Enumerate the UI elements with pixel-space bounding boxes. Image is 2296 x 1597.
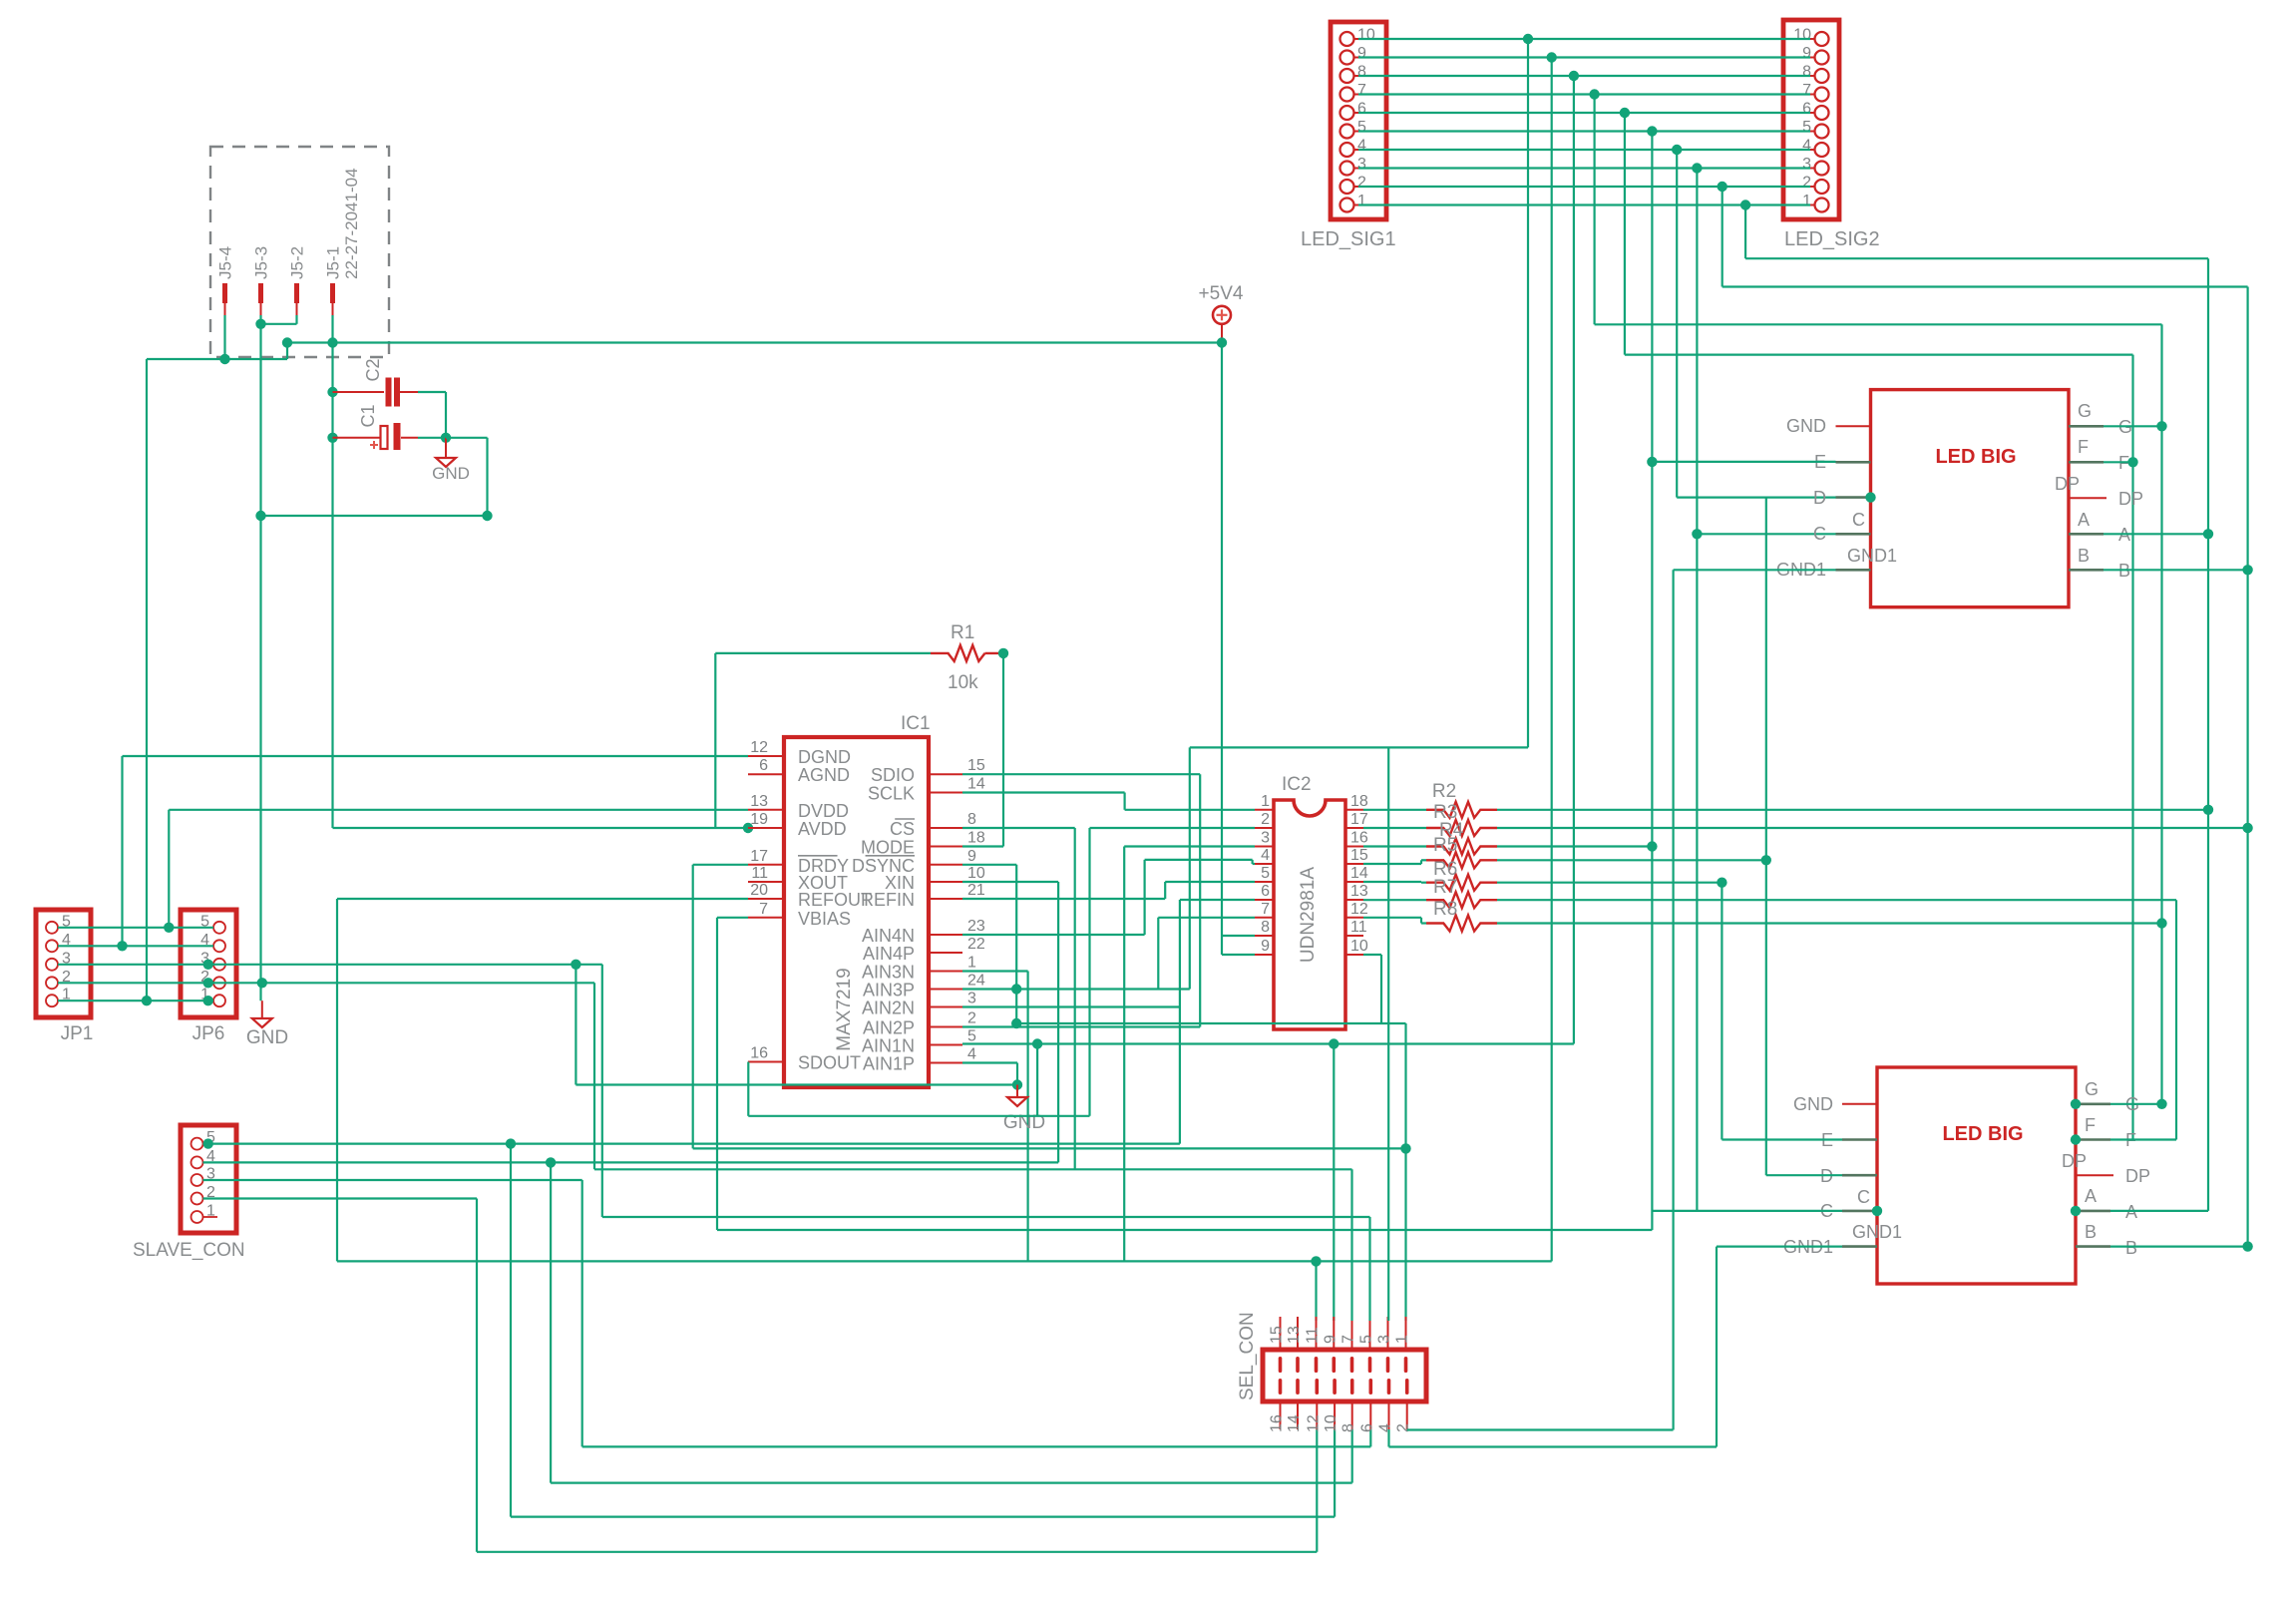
wire IC2.14 to R6: [1421, 882, 1426, 884]
connector JP1 body: [36, 910, 91, 1017]
wire SDOUT drop: [747, 1062, 749, 1116]
pin B stub (top LED BIG): [2069, 569, 2104, 572]
wire LED_SIG row pin 6: [1358, 112, 1810, 114]
svg-text:C1: C1: [358, 404, 378, 427]
pin number IC2.1: [1261, 793, 1270, 810]
resistor R5: [1426, 852, 1497, 868]
pin J5-2 pad: [294, 283, 299, 315]
wire AIN3P to IC2.7: [1158, 917, 1255, 919]
junction GND branch on pin3 row: [571, 960, 580, 970]
pin number 16: [750, 1045, 768, 1062]
pin number 18: [967, 830, 985, 847]
label F net (bottom LED BIG): [2125, 1130, 2136, 1150]
pin number JP6.5: [200, 913, 209, 930]
wire SIG4 drop: [1676, 150, 1678, 498]
wire R3 out to B net: [1497, 827, 2248, 829]
pin 23 AIN4N stub: [929, 934, 962, 936]
wire VBIAS row: [717, 917, 748, 919]
svg-text:AIN4N: AIN4N: [862, 926, 915, 946]
pin number IC2.15: [1350, 847, 1368, 864]
label C2: [363, 358, 383, 381]
label R7: [1433, 877, 1457, 898]
wire J5-1 vertical: [331, 315, 333, 343]
wire REFIN row: [962, 898, 1165, 900]
pin number 14: [967, 776, 985, 793]
wire SCLK row: [962, 791, 1125, 793]
svg-text:8: 8: [1357, 64, 1366, 81]
wire AIN2N row: [962, 1005, 1180, 1007]
wire +5V left drop to JP1.1: [146, 359, 148, 1000]
wire R5 out to D net: [1497, 859, 1766, 861]
svg-text:G: G: [2078, 401, 2092, 421]
ground GND near JP6: [252, 1000, 272, 1027]
pin number JP6.2: [200, 969, 209, 986]
wire DGND drop: [121, 756, 123, 946]
pin number SLAVE_CON.5: [206, 1129, 215, 1146]
pin number IC2.9: [1261, 938, 1270, 955]
wire LED_SIG row pin 9: [1358, 56, 1810, 58]
svg-text:D: D: [1813, 488, 1826, 508]
wire J5-2 to J5-3: [261, 323, 297, 325]
pin LED_SIG2.6: [1810, 106, 1829, 120]
svg-text:15: 15: [1350, 847, 1368, 864]
pin number IC2.11: [1350, 919, 1367, 936]
wire AIN4N spur row: [1145, 859, 1253, 861]
wire R2 out to A net: [1497, 809, 2208, 811]
svg-text:C2: C2: [363, 358, 383, 381]
pin JP6.2: [213, 977, 225, 989]
wire SLAVE.5 bottom row: [511, 1515, 1335, 1517]
svg-text:GND: GND: [432, 464, 470, 483]
svg-text:16: 16: [750, 1045, 768, 1062]
svg-text:1: 1: [1802, 193, 1811, 209]
resistor R4: [1426, 839, 1497, 855]
wire LED_SIG row pin 10: [1358, 38, 1810, 40]
wire IC2.15 to R5: [1421, 859, 1426, 861]
pin number SEL_CON.3: [1376, 1335, 1393, 1344]
pin 8 CS stub: [929, 827, 962, 829]
pin G stub (top LED BIG): [2069, 425, 2104, 428]
pin SEL_CON.9 stub: [1333, 1317, 1337, 1373]
pin 14 SCLK stub: [929, 792, 962, 794]
pin 15 SDIO stub: [929, 773, 962, 775]
svg-text:GND: GND: [1786, 416, 1826, 436]
pin GND1 stub (bottom LED BIG): [1842, 1245, 1877, 1248]
wire XIN drop: [1057, 882, 1059, 1162]
pin 18 MODE stub: [929, 846, 962, 848]
pin number 12: [750, 739, 768, 756]
svg-text:DP: DP: [2062, 1151, 2087, 1171]
junction LED_SIG row 5: [1647, 126, 1657, 136]
wire F row y355: [1625, 354, 2133, 356]
svg-text:MAX7219: MAX7219: [834, 968, 855, 1050]
pin number IC2.8: [1261, 919, 1270, 936]
wire A row y259: [1745, 257, 2208, 259]
wire SLAVE.5 drop: [510, 1144, 512, 1517]
label J5-4: [216, 246, 235, 279]
svg-text:7: 7: [1802, 82, 1811, 99]
pin IC2.13 stub: [1345, 899, 1363, 901]
svg-text:13: 13: [1286, 1326, 1303, 1344]
wire AIN1P drop: [1016, 1063, 1018, 1085]
junction SEL.11 feed: [1311, 1256, 1321, 1266]
pin name AIN4N: [862, 926, 915, 946]
pin LED_SIG1.9: [1340, 51, 1359, 65]
pin IC2.17 stub: [1345, 827, 1363, 829]
wire row y1172: [594, 1168, 1352, 1170]
svg-text:15: 15: [967, 757, 985, 774]
junction +5V at J5-1: [327, 337, 337, 347]
svg-text:LED BIG: LED BIG: [1942, 1123, 2023, 1145]
junction C-top: [1692, 529, 1702, 539]
pin IC2.9 stub: [1255, 954, 1274, 956]
wire B pin (top): [2104, 569, 2248, 571]
wire AIN4N spur jog: [1251, 860, 1253, 864]
label B net (bottom LED BIG): [2125, 1238, 2137, 1258]
svg-text:10: 10: [1793, 27, 1811, 44]
pin SEL_CON.13 stub: [1296, 1317, 1300, 1373]
junction A pin edge (bottom): [2071, 1206, 2081, 1216]
junction R6/E-bottom: [1717, 878, 1726, 888]
pin number SLAVE_CON.1: [206, 1203, 215, 1220]
label A pad (top LED BIG): [2078, 510, 2090, 530]
pin number SEL_CON.14: [1286, 1414, 1303, 1432]
junction C1 left: [327, 433, 337, 443]
pin number IC2.18: [1350, 793, 1368, 810]
pin A stub (bottom LED BIG): [2076, 1210, 2110, 1213]
pin SLAVE_CON.5: [191, 1138, 203, 1150]
wire +5V4 drop to IC2.9: [1221, 343, 1223, 956]
wire SLAVE.2 bottom row: [477, 1551, 1317, 1553]
svg-text:19: 19: [750, 811, 768, 828]
wire SLAVE.2 row: [203, 1197, 478, 1199]
pin number 13: [750, 793, 768, 810]
pin SLAVE_CON.1 stub: [203, 1216, 218, 1218]
svg-text:5: 5: [1802, 119, 1811, 136]
svg-text:18: 18: [1350, 793, 1368, 810]
wire GND1 drop: [1672, 570, 1674, 1429]
svg-text:MODE: MODE: [861, 838, 915, 858]
svg-text:AIN4P: AIN4P: [863, 944, 915, 964]
pin 16 SDOUT stub: [748, 1061, 784, 1063]
junction LED_SIG row 8: [1569, 71, 1579, 81]
svg-text:R5: R5: [1433, 835, 1457, 856]
wire AIN3P riser: [1157, 918, 1159, 990]
junction SLAVE.4 branch: [546, 1157, 556, 1167]
wire E row (bottom): [1722, 1138, 1842, 1140]
wire IC2.6 riser / SLAVE.5 net: [1179, 900, 1181, 1144]
label G net (top LED BIG): [2118, 417, 2132, 437]
pin SEL_CON.6 stub: [1369, 1379, 1373, 1429]
pin name AGND: [798, 765, 850, 785]
svg-text:10: 10: [967, 865, 985, 882]
svg-text:AIN3N: AIN3N: [862, 963, 915, 983]
label DP pad (bottom LED BIG): [2062, 1151, 2087, 1171]
label GND near C1: [432, 464, 470, 483]
pin LED_SIG2.4: [1810, 143, 1829, 157]
pin LED_SIG1.2: [1340, 180, 1359, 194]
svg-text:2: 2: [1261, 811, 1270, 828]
pin SEL_CON.4 stub: [1387, 1379, 1391, 1429]
svg-text:1: 1: [1394, 1335, 1411, 1344]
pin number IC2.12: [1350, 901, 1368, 918]
wire SLAVE.4 row: [203, 1161, 1059, 1163]
pin number SEL_CON.11: [1305, 1327, 1322, 1344]
wire D row (bottom): [1766, 1174, 1842, 1176]
pin number SEL_CON.12: [1305, 1414, 1322, 1432]
pin A stub (top LED BIG): [2069, 533, 2104, 536]
wire DGND row: [123, 755, 749, 757]
svg-text:16: 16: [1269, 1414, 1286, 1432]
svg-text:3: 3: [1261, 830, 1270, 847]
pin LED_SIG1.5: [1340, 125, 1359, 139]
svg-text:DP: DP: [2125, 1166, 2150, 1186]
pin IC2.1 stub: [1255, 809, 1274, 811]
pin name DVDD: [798, 801, 849, 821]
wire +5V to IC2 pin9: [1222, 954, 1255, 956]
pin IC2.8 stub: [1255, 935, 1274, 937]
label C pad (top LED BIG): [1852, 510, 1865, 530]
junction LED_SIG row 10: [1523, 34, 1533, 44]
junction R2/A: [2203, 805, 2213, 815]
connector JP6 body: [181, 910, 236, 1017]
junction GND row left: [255, 511, 265, 521]
wire SLAVE.4 drop: [550, 1162, 552, 1482]
junction J5-3/J5-2: [255, 319, 265, 329]
pin number LED_SIG2.8: [1802, 64, 1811, 81]
pin number 20: [750, 882, 768, 899]
svg-text:8: 8: [967, 811, 976, 828]
pin IC2.18 stub: [1345, 809, 1363, 811]
pin B stub (bottom LED BIG): [2076, 1245, 2110, 1248]
pin IC2.4 stub: [1255, 863, 1274, 865]
label F net (top LED BIG): [2118, 453, 2129, 473]
junction LED_SIG row 6: [1620, 108, 1630, 118]
wire +5V to AVDD: [333, 827, 749, 829]
svg-text:C: C: [1852, 510, 1865, 530]
label JP6: [192, 1023, 225, 1044]
svg-text:A: A: [2085, 1186, 2097, 1206]
pin number LED_SIG2.4: [1802, 138, 1811, 155]
junction C2 left: [327, 387, 337, 397]
svg-text:LED BIG: LED BIG: [1935, 446, 2016, 468]
wire LED_SIG row pin 3: [1358, 167, 1810, 169]
label R2: [1432, 781, 1456, 802]
pin number JP6.4: [200, 932, 209, 949]
label GND1 pad (bottom LED BIG): [1852, 1222, 1902, 1242]
label LED_SIG2: [1784, 228, 1880, 250]
wire J5-2 vertical: [295, 315, 297, 324]
pin number 8: [967, 811, 976, 828]
svg-text:4: 4: [1802, 138, 1811, 155]
wire SDOUT riser: [1036, 1044, 1038, 1116]
wire GND net J5-3 down: [259, 324, 261, 1000]
wire IC2.12 jog v: [1420, 918, 1422, 924]
label A net (top LED BIG): [2118, 525, 2130, 545]
pin 5 AIN1N stub: [929, 1044, 962, 1046]
wire GND1 row (top): [1674, 569, 1836, 571]
junction DRDY row on SEL1 feed: [1400, 1143, 1410, 1153]
svg-text:11: 11: [1350, 919, 1367, 936]
wire REFOUT row y1264: [337, 1260, 1552, 1262]
wire IC2.2 feed drop: [1088, 828, 1090, 1116]
svg-text:3: 3: [1802, 156, 1811, 173]
pin 2 AIN2P stub: [929, 1026, 962, 1028]
junction JP6.3: [203, 960, 213, 970]
svg-text:17: 17: [1350, 811, 1368, 828]
label SLAVE_CON: [133, 1240, 245, 1261]
pin name AIN1P: [863, 1054, 915, 1074]
label R5: [1433, 835, 1457, 856]
pin number LED_SIG2.9: [1802, 45, 1811, 62]
wire SEL.8 riser: [1351, 1429, 1353, 1483]
label F pad (top LED BIG): [2078, 437, 2089, 457]
label DP net (top LED BIG): [2118, 489, 2143, 509]
junction GND row right: [482, 511, 492, 521]
pin SEL_CON.8 stub: [1350, 1379, 1354, 1429]
pin LED_SIG1.6: [1340, 106, 1359, 120]
svg-text:24: 24: [967, 973, 985, 990]
pin number JP1.1: [62, 987, 71, 1003]
svg-text:R7: R7: [1433, 877, 1457, 898]
pin number 17: [750, 848, 768, 865]
connector LED_SIG2 body: [1783, 20, 1839, 219]
wire R1 left riser: [714, 653, 716, 828]
pin SLAVE_CON.4: [191, 1156, 203, 1168]
pin D stub (top LED BIG): [1836, 496, 1871, 499]
wire SIG2 drop: [1722, 187, 1723, 287]
svg-text:4: 4: [1261, 847, 1270, 864]
pin number SEL_CON.7: [1340, 1335, 1357, 1344]
pin name SDIO: [871, 765, 915, 785]
pin number LED_SIG1.3: [1357, 156, 1366, 173]
wire AIN1N long row: [962, 1042, 1574, 1044]
pin name AIN3P: [863, 981, 915, 1000]
svg-text:6: 6: [1357, 101, 1366, 118]
pin name DRDY: [798, 856, 849, 876]
wire F pin (bottom): [2110, 1138, 2176, 1140]
pin name VBIAS: [798, 909, 851, 929]
wire C2 right: [418, 391, 446, 393]
supply +5V4: [1213, 306, 1231, 343]
wire SEL.3 feed drop: [1387, 747, 1389, 1321]
wire LED_SIG row pin 8: [1358, 75, 1810, 77]
pin number JP6.3: [200, 950, 209, 967]
label DP net (bottom LED BIG): [2125, 1166, 2150, 1186]
wire LED_SIG row pin 2: [1358, 186, 1810, 188]
pin IC2.12 stub: [1345, 917, 1363, 919]
pin number SEL_CON.1: [1394, 1335, 1411, 1344]
label GND near JP6: [246, 1027, 288, 1048]
svg-text:17: 17: [750, 848, 768, 865]
pin number LED_SIG1.5: [1357, 119, 1366, 136]
pin number SEL_CON.9: [1322, 1335, 1339, 1344]
svg-text:J5-4: J5-4: [216, 246, 235, 279]
wire IC2.3 feed riser: [1123, 847, 1125, 1262]
pin number SEL_CON.2: [1395, 1423, 1412, 1432]
pin SEL_CON.14 stub: [1296, 1379, 1300, 1429]
label R1: [951, 622, 974, 643]
svg-text:6: 6: [1802, 101, 1811, 118]
wire SIG10 drop: [1189, 747, 1191, 989]
wire AIN4N to IC2.4: [1253, 863, 1255, 865]
pin GND stub (top LED BIG): [1836, 425, 1871, 427]
pin LED_SIG2.3: [1810, 162, 1829, 176]
pin SEL_CON.11 stub: [1315, 1317, 1319, 1373]
svg-text:6: 6: [1358, 1423, 1375, 1432]
junction IC1 GND: [1012, 1079, 1022, 1089]
wire C1 right: [418, 437, 446, 439]
pin 3 AIN2N stub: [929, 1006, 962, 1008]
pin D stub (bottom LED BIG): [1842, 1174, 1877, 1177]
wire LED_SIG row pin 4: [1358, 149, 1810, 151]
svg-text:GND: GND: [1793, 1094, 1833, 1114]
svg-text:LED_SIG2: LED_SIG2: [1784, 228, 1880, 250]
pin number SLAVE_CON.2: [206, 1184, 215, 1201]
junction +5V at pin1 row: [142, 996, 152, 1005]
svg-text:IC1: IC1: [901, 713, 931, 734]
pin JP6.5: [213, 922, 225, 934]
junction SDOUT riser on AIN1N row: [1032, 1038, 1042, 1048]
pin number IC2.5: [1261, 865, 1270, 882]
pin number IC2.3: [1261, 830, 1270, 847]
label R4: [1439, 820, 1464, 841]
pin name AIN2P: [863, 1018, 915, 1038]
pin number LED_SIG2.5: [1802, 119, 1811, 136]
wire LED_SIG row pin 1: [1358, 203, 1810, 205]
wire LED_SIG row pin 5: [1358, 130, 1810, 132]
pin number 10: [967, 865, 985, 882]
pin 11 XOUT stub: [748, 881, 784, 883]
label 22-27-2041-04: [342, 168, 361, 279]
capacitor C1 polarized: [333, 423, 419, 450]
pin name AVDD: [798, 819, 847, 839]
svg-text:4: 4: [1357, 138, 1366, 155]
svg-text:6: 6: [759, 757, 768, 774]
pin number 23: [967, 918, 985, 935]
wire R4 out to E net: [1497, 845, 1652, 847]
label R3: [1433, 802, 1457, 823]
wire SIG5 drop to E: [1651, 132, 1653, 462]
wire DVDD row: [169, 809, 748, 811]
pin 19 AVDD stub: [748, 827, 784, 829]
wire SDIO drop: [1199, 774, 1201, 1026]
pin 12 DGND stub: [748, 755, 784, 757]
svg-text:C: C: [1813, 524, 1826, 544]
pin number LED_SIG2.10: [1793, 27, 1811, 44]
wire GND row under IC1: [575, 1083, 1017, 1085]
svg-text:13: 13: [1350, 883, 1368, 900]
label GND1 left (top LED BIG): [1776, 560, 1826, 580]
resistor R8: [1426, 916, 1497, 932]
wire AIN1P row: [962, 1061, 1017, 1063]
wire SLAVE.5 row: [203, 1142, 1180, 1144]
svg-text:3: 3: [1376, 1335, 1393, 1344]
pin JP1.5: [46, 922, 58, 934]
junction R4/E: [1647, 841, 1657, 851]
wire SEL.5 feed drop: [1368, 1217, 1370, 1321]
wire IC2.10 right: [1363, 954, 1381, 956]
wire IC2.13 to R7: [1363, 899, 1426, 901]
junction JP6.1: [203, 996, 213, 1005]
pin number JP1.3: [62, 950, 71, 967]
junction F pin edge (bottom): [2071, 1134, 2081, 1144]
pin IC2.14 stub: [1345, 881, 1363, 883]
wire SEL.6 riser: [1369, 1429, 1371, 1446]
wire F net R7 drop: [2175, 900, 2177, 1139]
wire IC2.12 to R8: [1421, 922, 1426, 924]
junction JP6.2: [203, 978, 213, 988]
